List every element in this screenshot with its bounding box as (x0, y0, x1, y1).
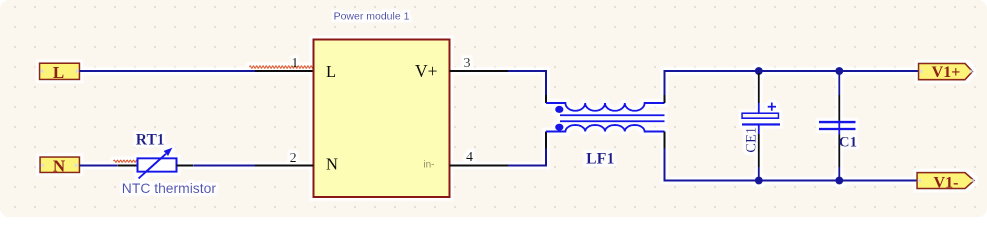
junction dot top CE1 (755, 67, 763, 75)
LF1 bottom-left pin (545, 132, 547, 149)
compile-warning squiggle on RT1 pin (114, 160, 142, 162)
wire RT1-to-pin2 (193, 165, 255, 167)
capacitor C1 plate 2 (819, 128, 856, 131)
pin 4 (450, 165, 509, 167)
svg-text:CE1: CE1 (743, 127, 759, 153)
svg-text:LF1: LF1 (586, 150, 614, 167)
port connection markers (41, 70, 975, 182)
compile-warning squiggle on pin 1 (250, 66, 317, 68)
LF1 polarity dot top (555, 106, 563, 113)
wire pin4-to-LF1 (508, 149, 546, 166)
svg-text:V1-: V1- (934, 174, 959, 191)
svg-text:in-: in- (423, 160, 434, 171)
capacitor CE1 bottom lead (758, 126, 760, 135)
LF1 top-right pin (664, 95, 666, 103)
LF1 core line lower (560, 120, 665, 122)
junction dot bottom CE1 (755, 177, 763, 185)
svg-text:C1: C1 (839, 134, 857, 150)
capacitor C1 plate 1 (819, 121, 856, 124)
port N (40, 157, 80, 176)
thermistor RT1 arrow (139, 154, 167, 179)
svg-text:1: 1 (291, 56, 298, 71)
svg-text:N: N (53, 157, 66, 176)
wire LF1-to-V1+ rail (665, 71, 919, 95)
pin 2 (255, 165, 314, 167)
svg-text:NTC thermistor: NTC thermistor (122, 180, 217, 196)
svg-text:L: L (326, 62, 336, 81)
junction dot top C1 (835, 67, 843, 75)
capacitor C1 bottom lead (838, 131, 840, 135)
port L (40, 63, 80, 82)
svg-text:V+: V+ (415, 61, 438, 81)
wire L-to-pin1 (80, 70, 256, 72)
svg-text:3: 3 (464, 56, 471, 71)
capacitor CE1 top lead (758, 73, 760, 103)
capacitor CE1 positive plate (742, 113, 779, 118)
thermistor RT1 left pin (118, 165, 138, 167)
wire pin3-to-LF1 (508, 71, 546, 95)
LF1 bottom-right pin (664, 132, 666, 149)
capacitor C1 top lead (838, 71, 840, 95)
junction dot bottom C1 (835, 177, 843, 185)
LF1 core line upper (560, 114, 665, 116)
svg-text:N: N (326, 155, 338, 174)
power module body (314, 40, 450, 198)
LF1 top-left pin (545, 95, 547, 103)
port V1+ (919, 63, 973, 81)
svg-text:Power module 1: Power module 1 (334, 11, 410, 23)
svg-text:2: 2 (290, 151, 297, 166)
svg-text:RT1: RT1 (136, 132, 165, 149)
wire N-to-RT1 (80, 165, 118, 167)
svg-text:L: L (53, 63, 64, 82)
capacitor CE1 negative plate (742, 123, 780, 125)
pin 3 (450, 70, 509, 72)
inductor LF1 top winding (546, 103, 665, 111)
svg-text:4: 4 (466, 150, 473, 165)
thermistor RT1 body (138, 158, 177, 171)
capacitor CE1 plus sign (768, 103, 776, 111)
wire LF1-to-V1- rail (665, 149, 918, 181)
inductor LF1 bottom winding (546, 125, 665, 131)
port V1- (917, 173, 974, 192)
LF1 polarity dot bottom (555, 124, 563, 131)
pin 1 (255, 70, 314, 72)
svg-text:V1+: V1+ (932, 64, 961, 81)
thermistor RT1 right pin (177, 165, 194, 167)
